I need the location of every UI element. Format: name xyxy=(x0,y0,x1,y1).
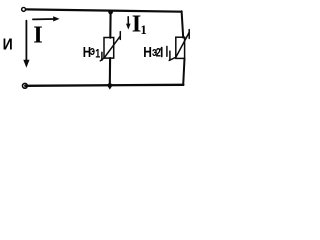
svg-text:Н: Н xyxy=(143,44,152,61)
wire right branch lower xyxy=(183,58,184,85)
nonlinear element NE2 body xyxy=(176,37,185,58)
NE2 diagonal xyxy=(169,32,189,60)
source arrowhead xyxy=(23,60,29,68)
svg-text:1: 1 xyxy=(95,48,100,60)
junction node top xyxy=(108,10,113,15)
NE2 extra stroke left of lower tick xyxy=(166,46,168,56)
source arrow shaft xyxy=(25,21,27,61)
nonlinear element NE1 body xyxy=(104,38,114,59)
terminal top-left xyxy=(22,7,26,11)
wire left branch upper xyxy=(109,12,111,38)
NE2 lower tick xyxy=(169,51,171,60)
svg-text:И: И xyxy=(3,35,13,53)
NE2 upper tick xyxy=(188,30,190,39)
current arrow I shaft xyxy=(33,18,54,20)
wire left branch lower xyxy=(109,58,111,85)
svg-text:I: I xyxy=(33,21,43,48)
wire right branch upper xyxy=(182,11,184,37)
NE1 diagonal xyxy=(100,36,120,61)
terminal bottom-left xyxy=(23,83,28,88)
current arrow I1 shaft xyxy=(127,17,129,24)
label NE2: digit 1 stem xyxy=(161,48,163,57)
svg-text:2: 2 xyxy=(156,46,161,60)
svg-text:1: 1 xyxy=(140,23,146,37)
NE1 upper tick xyxy=(119,32,121,40)
I arrowhead xyxy=(53,16,59,21)
svg-text:э: э xyxy=(90,45,95,59)
label NE2: digit 1 flag xyxy=(160,48,162,50)
NE1 lower tick xyxy=(101,52,103,60)
I1 arrowhead xyxy=(126,24,131,30)
wire top xyxy=(26,9,182,11)
wire bottom xyxy=(25,85,183,86)
junction node bottom xyxy=(107,83,114,90)
